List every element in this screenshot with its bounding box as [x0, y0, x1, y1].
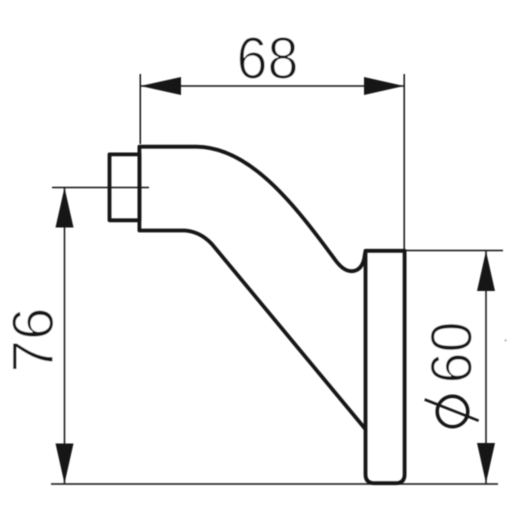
arrowhead diameter 60 bottom — [477, 443, 495, 483]
svg-text:68: 68 — [237, 26, 299, 92]
bottom extension line — [51, 483, 498, 485]
arrowhead diameter 60 top — [477, 251, 495, 291]
arrowhead 76 top — [56, 188, 74, 228]
extension line right of 68 — [403, 74, 405, 250]
dimension line 68 — [141, 85, 404, 87]
dimension line diameter 60 — [485, 251, 487, 484]
mounting plate — [366, 251, 405, 483]
bracket arm outline — [139, 147, 365, 429]
svg-text:76: 76 — [1, 308, 66, 373]
dimension line 76 — [64, 188, 66, 484]
socket rectangle — [110, 154, 140, 220]
arrowhead 68 right — [364, 77, 404, 95]
svg-text:60: 60 — [420, 322, 485, 384]
diameter symbol — [425, 396, 479, 427]
centre line through socket — [52, 187, 149, 189]
extension line top of diameter 60 — [404, 250, 503, 252]
arrowhead 76 bottom — [56, 444, 74, 484]
extension line left of 68 — [139, 74, 141, 144]
arrowhead 68 left — [141, 77, 182, 95]
scan speck — [504, 339, 506, 341]
